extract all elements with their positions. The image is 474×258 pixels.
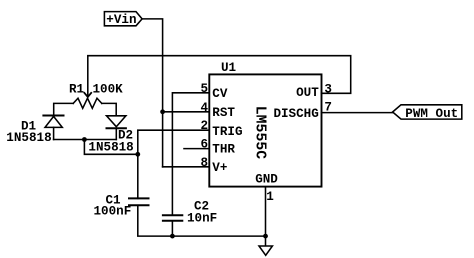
svg-text:1N5818: 1N5818 [88, 141, 133, 155]
wire R1 to D2 [102, 103, 116, 115]
output tag PWM Out [393, 105, 462, 119]
wire diode junction to TRIG node [84, 140, 137, 155]
svg-text:2: 2 [200, 119, 208, 133]
wire CV pin 5 down to C2 [172, 93, 209, 215]
wire OUT pin 3 loop to R1 wiper [88, 56, 351, 97]
svg-text:100K: 100K [93, 82, 124, 96]
junction ground rail [263, 234, 268, 239]
svg-text:U1: U1 [221, 61, 237, 75]
svg-text:3: 3 [324, 83, 332, 97]
op IC U1 box [209, 74, 321, 186]
svg-text:TRIG: TRIG [212, 125, 242, 139]
svg-text:5: 5 [200, 82, 208, 96]
diode D2 [107, 116, 126, 127]
wire GND pin 1 [265, 187, 267, 237]
svg-text:1N5818: 1N5818 [6, 131, 51, 145]
svg-text:RST: RST [212, 106, 235, 120]
svg-text:100nF: 100nF [94, 205, 132, 219]
wire C2 to ground rail [171, 221, 173, 236]
ground symbol [265, 236, 267, 246]
wire C1 to ground rail [138, 205, 266, 236]
svg-text:V+: V+ [212, 161, 227, 175]
wire TRIG pin 2 to node [138, 130, 210, 154]
resistor R1 [73, 98, 102, 108]
wire V+ pin 8 to +Vin rail [163, 166, 210, 168]
svg-text:6: 6 [200, 138, 208, 152]
capacitor C1 [129, 197, 149, 199]
svg-text:DISCHG: DISCHG [273, 107, 318, 121]
svg-text:1: 1 [266, 190, 274, 204]
stub THR pin 6 [184, 148, 209, 150]
wire diode bottoms [54, 139, 117, 141]
svg-text:OUT: OUT [296, 86, 319, 100]
svg-text:4: 4 [200, 101, 208, 115]
svg-text:+Vin: +Vin [106, 13, 136, 27]
junction RST/+Vin [160, 109, 165, 114]
svg-text:R1: R1 [69, 82, 85, 96]
junction TRIG/C1/diode node [135, 152, 140, 157]
svg-text:PWM Out: PWM Out [405, 107, 458, 121]
label 1N5818 of D2 [86, 142, 136, 153]
diode D1 [43, 115, 63, 117]
svg-text:CV: CV [212, 87, 228, 101]
wire R1 network top [54, 103, 73, 115]
junction C2/ground rail [170, 234, 175, 239]
capacitor C2 [163, 214, 182, 216]
svg-text:8: 8 [200, 156, 208, 170]
wiper arrow onto R1 [84, 93, 91, 97]
svg-text:LM555C: LM555C [252, 106, 268, 159]
wire RST pin 4 to +Vin rail [163, 111, 210, 113]
svg-text:10nF: 10nF [187, 211, 217, 225]
svg-text:THR: THR [212, 143, 235, 157]
power tag +Vin [104, 12, 142, 26]
wire node to C1 [137, 154, 139, 198]
svg-text:7: 7 [324, 100, 332, 114]
junction diodes [82, 137, 87, 142]
wire +Vin tag to corner [142, 19, 163, 167]
wire DISCHG pin 7 to tag [322, 112, 393, 114]
svg-text:GND: GND [255, 173, 278, 187]
